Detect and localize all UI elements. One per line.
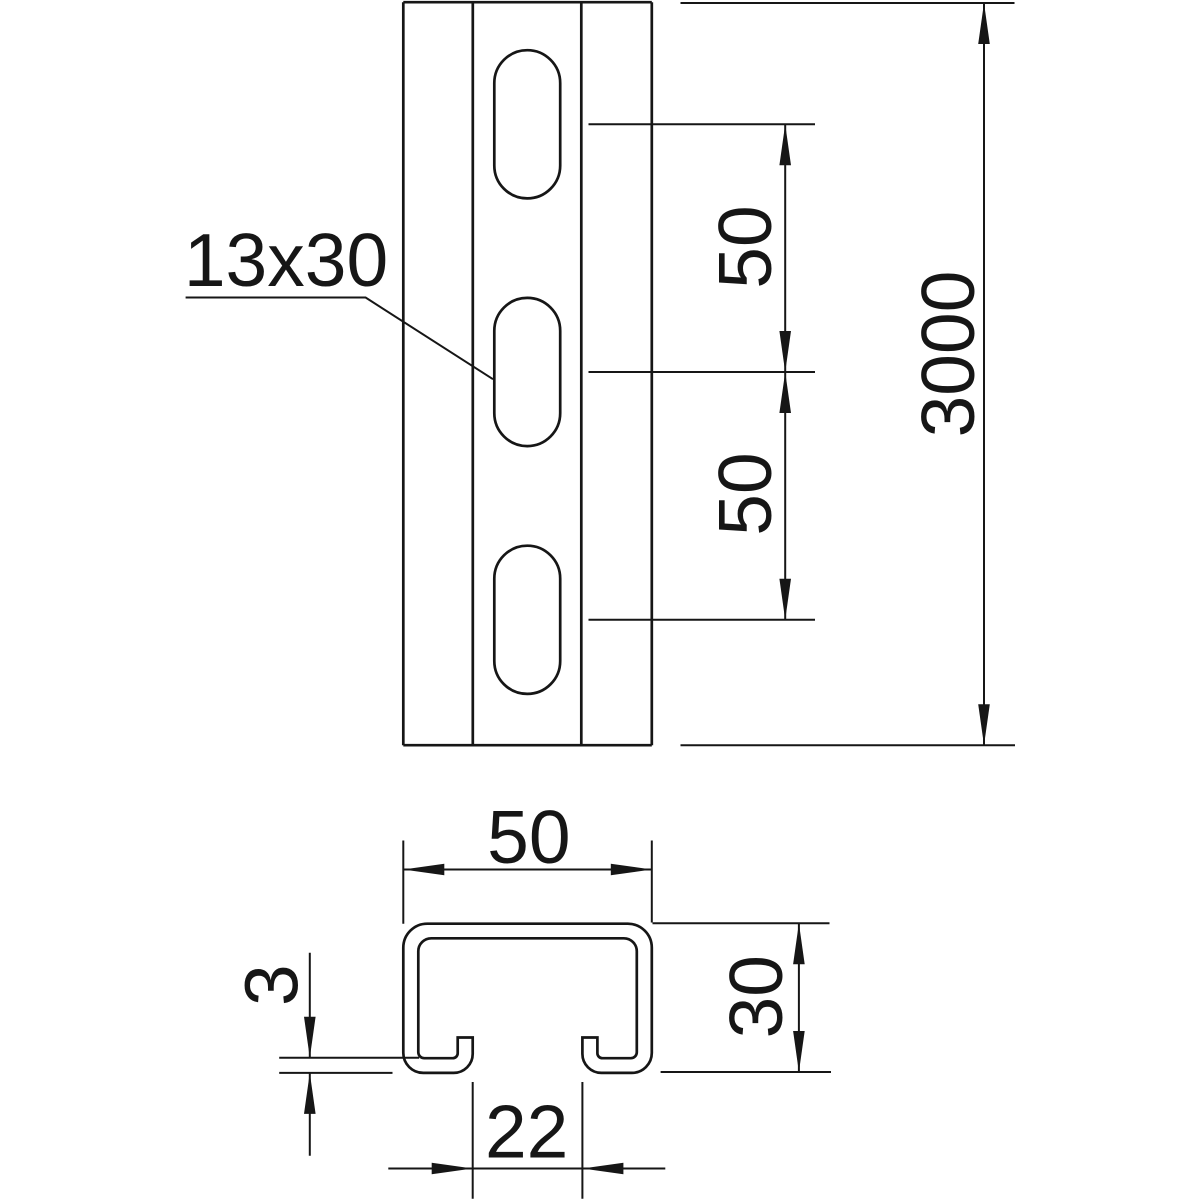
svg-text:3: 3: [230, 964, 314, 1006]
extension line 22 right: [581, 1082, 583, 1199]
slot hole 3 (13x30): [494, 546, 560, 694]
profile body: [403, 924, 652, 1073]
rail outline: [403, 2, 652, 745]
extension line 50-width right: [651, 841, 653, 923]
extension line 22 left: [472, 1082, 474, 1199]
arrow right to 22-left line: [432, 1163, 473, 1175]
extension line 3-thickness lower: [279, 1072, 392, 1074]
arrow up to lower line (3): [304, 1073, 316, 1114]
dimension line 30 height: [798, 923, 800, 1072]
dimension line 3 lower tail: [309, 1073, 311, 1156]
extension line slot2 center: [589, 371, 816, 373]
extension line 50-width left: [402, 841, 404, 924]
arrow down (30 bottom): [793, 1031, 805, 1072]
dimension line 50 width: [403, 869, 652, 871]
dimension line 22: [388, 1168, 665, 1170]
svg-text:30: 30: [714, 955, 798, 1038]
svg-text:3000: 3000: [906, 271, 990, 438]
extension line top (3000): [681, 2, 1015, 4]
arrow down at slot3 center: [779, 579, 791, 620]
arrow up (3000 top): [978, 3, 990, 44]
arrow up at slot1 center: [779, 124, 791, 165]
arrow left to 22-right line: [582, 1163, 623, 1175]
arrow right (50 width): [611, 864, 652, 876]
extension line 30-height top: [653, 922, 830, 924]
arrow up at slot2 center (lower side): [779, 372, 791, 413]
extension line slot1 center: [589, 123, 816, 125]
arrow down (3000 bottom): [978, 704, 990, 745]
svg-text:13x30: 13x30: [184, 218, 388, 302]
arrow up (30 top): [793, 923, 805, 964]
arrow down at slot2 center (upper side): [779, 331, 791, 372]
extension line slot3 center: [589, 619, 816, 621]
arrow left (50 width): [403, 864, 444, 876]
rail fold line right: [580, 2, 583, 745]
extension line 3-thickness upper: [279, 1057, 419, 1059]
dimension line 50/50 pitch: [784, 124, 786, 620]
rail fold line left: [471, 2, 474, 745]
dimension line 3 upper tail: [309, 953, 311, 1058]
arrow down to upper line (3): [304, 1017, 316, 1058]
slot hole 1 (13x30): [494, 50, 560, 198]
svg-text:22: 22: [485, 1090, 568, 1174]
slot hole 2 (13x30): [494, 298, 560, 446]
svg-text:50: 50: [487, 795, 570, 879]
extension line bottom (3000): [681, 744, 1016, 746]
leader line from label to slot 2: [186, 298, 493, 380]
extension line 30-height bottom: [661, 1071, 831, 1073]
dimension line 3000: [983, 3, 985, 745]
svg-text:50: 50: [703, 205, 787, 288]
svg-text:50: 50: [703, 452, 787, 535]
